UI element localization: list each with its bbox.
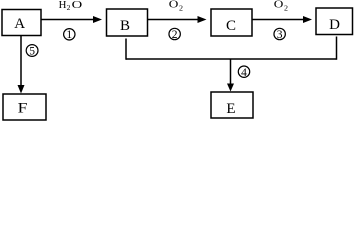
label O2 first (169, 0, 183, 13)
svg-text:F: F (18, 101, 28, 117)
wire horizontal bus B-D (126, 58, 337, 60)
svg-text:O: O (274, 0, 284, 11)
box A (2, 10, 41, 36)
label circled 1 (64, 29, 75, 42)
svg-text:2: 2 (179, 4, 183, 13)
wire arrow A to B (41, 16, 102, 23)
box B (107, 9, 148, 36)
svg-text:A: A (14, 16, 25, 32)
svg-text:3: 3 (277, 29, 283, 41)
svg-text:H: H (59, 0, 67, 11)
svg-text:2: 2 (67, 3, 71, 12)
svg-text:B: B (120, 18, 130, 34)
label O2 second (274, 0, 288, 13)
svg-text:5: 5 (29, 46, 35, 58)
label circled 5 (26, 45, 38, 58)
wire arrow A down to F (18, 36, 25, 94)
wire arrow B to C (148, 16, 207, 23)
box E (211, 92, 253, 118)
svg-text:2: 2 (284, 4, 288, 13)
svg-text:C: C (226, 18, 236, 34)
wire arrow C to D (252, 16, 312, 23)
wire arrow bus down to E (227, 59, 234, 92)
svg-text:4: 4 (241, 67, 247, 79)
wire from B down to junction (125, 39, 127, 60)
box F (3, 94, 46, 120)
label circled 3 (274, 28, 285, 41)
svg-text:2: 2 (172, 29, 178, 41)
svg-text:E: E (226, 101, 235, 117)
svg-text:O: O (169, 0, 179, 11)
wire from D down to junction (336, 37, 338, 60)
label circled 2 (169, 28, 180, 41)
label circled 4 (238, 66, 249, 79)
box D (316, 8, 353, 35)
svg-text:1: 1 (66, 29, 72, 41)
label H2O (59, 0, 83, 12)
svg-text:O: O (72, 0, 83, 11)
box C (211, 9, 252, 36)
svg-text:D: D (329, 17, 340, 33)
